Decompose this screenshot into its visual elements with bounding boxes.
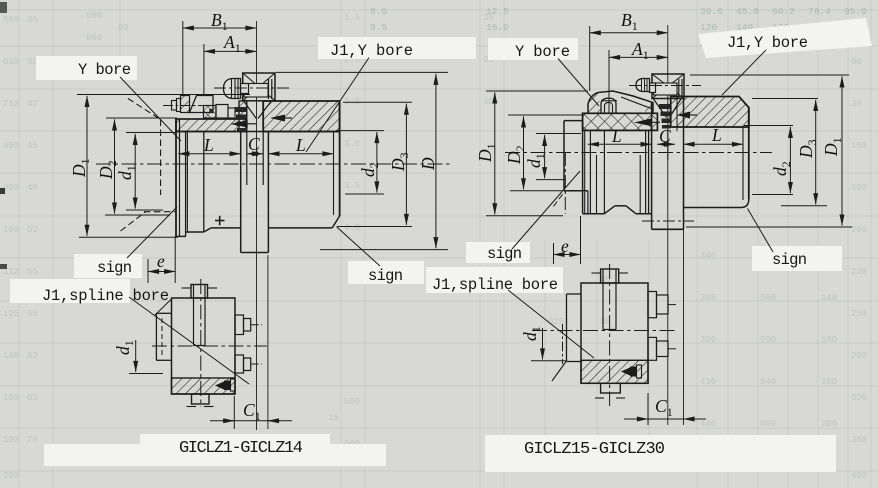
dim B1 right ext — [589, 26, 591, 91]
swan clamp small block — [228, 108, 235, 118]
patch sign right-right — [752, 246, 842, 271]
small view hatch band — [172, 378, 236, 394]
disc slot lines right drawing — [667, 131, 669, 160]
sleeve right bottom chamfer — [332, 216, 339, 228]
svg-text:250: 250 — [851, 309, 867, 319]
svg-text:45: 45 — [27, 141, 38, 151]
hub small end top — [564, 120, 583, 122]
svg-text:180: 180 — [821, 377, 837, 387]
svg-text:800: 800 — [3, 141, 19, 151]
sleeve right outer face — [748, 108, 750, 200]
svg-text:55: 55 — [27, 267, 38, 277]
bolt boss hatch — [645, 103, 653, 113]
bolt block right — [652, 74, 684, 99]
phantom dashed chamfer — [128, 99, 161, 120]
stub break marks — [182, 287, 191, 289]
small view right spline bolt dark — [621, 368, 630, 376]
swan clamp hatched block — [181, 96, 190, 113]
patch J1,Y bore right — [698, 18, 872, 58]
small view right body — [581, 283, 648, 383]
brake disc right face — [267, 132, 269, 253]
svg-text:GICLZ1-GICLZ14: GICLZ1-GICLZ14 — [179, 439, 303, 458]
svg-text:120: 120 — [700, 22, 717, 33]
dim d2 line — [376, 132, 378, 193]
dim D line — [435, 74, 437, 248]
sleeve hatched band right — [671, 97, 749, 128]
small view right horizontal centerline — [532, 330, 678, 332]
bore line under hatch — [175, 131, 340, 133]
leader sign right — [337, 227, 381, 266]
brake disc bottom edge — [241, 252, 269, 254]
C1 right dim — [624, 418, 706, 420]
sleeve hatched section right part — [263, 101, 339, 132]
dim e right verticals — [553, 243, 555, 264]
dim D refs — [276, 71, 448, 73]
svg-text:L: L — [611, 126, 622, 146]
svg-text:GICLZ15-GICLZ30: GICLZ15-GICLZ30 — [524, 440, 665, 459]
svg-text:360: 360 — [700, 293, 716, 303]
patch J1,spline bore right — [426, 267, 563, 293]
dim e line — [148, 271, 175, 273]
svg-text:58: 58 — [27, 309, 38, 319]
swan flange left hatch — [588, 93, 601, 114]
svg-text:200: 200 — [821, 419, 837, 429]
dim d2 refs — [336, 130, 384, 132]
dim d1 line — [134, 134, 136, 209]
svg-text:160: 160 — [851, 141, 867, 151]
swan clamp trapezoid — [190, 96, 214, 113]
small view body — [172, 298, 236, 394]
hub taper step lines — [589, 130, 591, 213]
svg-text:500: 500 — [344, 397, 360, 407]
patch Y bore left — [36, 56, 137, 80]
small view right tab lower — [648, 337, 657, 360]
leader J1,spline bore right — [508, 290, 594, 358]
swan clamp stub bolt — [172, 101, 177, 111]
leader sign right-left — [512, 171, 580, 249]
countersunk V seat — [244, 102, 256, 119]
svg-text:410: 410 — [700, 377, 716, 387]
svg-text:390: 390 — [700, 335, 716, 345]
leader J1,spline bore — [129, 297, 249, 384]
small view top stub — [191, 285, 208, 299]
left hub flange edge — [185, 132, 187, 237]
left hub face chamfer line — [179, 119, 181, 236]
bolt shank right — [650, 83, 656, 93]
svg-text:40: 40 — [483, 97, 494, 107]
svg-text:65: 65 — [27, 393, 38, 403]
svg-text:180: 180 — [3, 435, 19, 445]
left hub step line — [186, 132, 188, 233]
hub small end face — [563, 121, 565, 191]
svg-text:100: 100 — [3, 225, 19, 235]
C1 ref verticals — [233, 396, 235, 429]
dim D2 line — [114, 119, 116, 213]
small view right hatch band — [581, 360, 648, 383]
bolt block bore band right — [654, 83, 678, 95]
phantom dashed break diagonal — [121, 212, 147, 232]
bolt block X diagonals right — [652, 74, 684, 99]
sleeve hatched section left part — [239, 101, 247, 132]
left hub hatched band — [176, 119, 246, 132]
hub bottom edge to disc — [211, 227, 241, 229]
svg-text:95.0: 95.0 — [844, 6, 867, 17]
hub hatched band — [583, 113, 658, 130]
dim e right line — [554, 254, 581, 256]
svg-text:560: 560 — [3, 15, 19, 25]
dim e verticals — [147, 259, 149, 283]
bolt axis vertical thin line — [256, 21, 258, 430]
disc slot right line — [262, 103, 264, 185]
dim A1 extension line — [203, 44, 205, 96]
svg-text:9.5: 9.5 — [370, 22, 387, 33]
dim D2 right line — [523, 116, 525, 189]
svg-text:35: 35 — [27, 15, 38, 25]
svg-text:52: 52 — [27, 225, 38, 235]
patch caption right band — [485, 435, 836, 472]
disc right face right drawing — [683, 97, 685, 230]
dim B1 line — [183, 27, 257, 29]
dim D1 line — [86, 96, 88, 236]
svg-text:160: 160 — [3, 393, 19, 403]
svg-text:L: L — [711, 125, 722, 145]
dash-dot disc lower line — [642, 220, 694, 222]
svg-text:320: 320 — [851, 393, 867, 403]
dim B1 right line — [590, 32, 668, 34]
leader J1,Y bore — [306, 58, 369, 153]
svg-text:3.0: 3.0 — [344, 139, 360, 149]
svg-text:C: C — [248, 134, 260, 154]
dim d2 right line — [789, 127, 791, 193]
swan clamp right block — [216, 105, 228, 119]
svg-text:200: 200 — [851, 225, 867, 235]
svg-text:Y bore: Y bore — [78, 61, 131, 79]
small view right phantom dash-dot — [562, 324, 564, 364]
svg-text:J1,spline bore: J1,spline bore — [432, 276, 558, 294]
small view right top stub — [601, 269, 619, 283]
dim d1 right refs — [536, 133, 581, 135]
sleeve right inner face — [333, 132, 335, 216]
dim D3 right refs — [752, 98, 818, 100]
disc bottom edge right drawing — [652, 228, 684, 230]
svg-text:440: 440 — [700, 419, 716, 429]
svg-text:1.5: 1.5 — [344, 13, 360, 23]
patch Y bore right — [488, 38, 578, 60]
small view spline bolt dark — [215, 382, 224, 390]
svg-text:140: 140 — [821, 293, 837, 303]
C1 right ref verticals — [647, 393, 649, 425]
leader Y bore — [120, 77, 181, 141]
svg-text:J1,spline bore: J1,spline bore — [42, 287, 169, 305]
main horizontal centerline — [96, 163, 452, 165]
swan flange outline — [588, 91, 653, 114]
svg-text:D: D — [418, 157, 438, 171]
bearing cap line — [601, 100, 617, 102]
leader J1,Y bore right — [722, 50, 766, 95]
small view d1 dim — [135, 340, 137, 372]
clamp block bore band — [244, 84, 268, 98]
svg-text:sign: sign — [772, 251, 807, 269]
dim C — [247, 153, 263, 155]
bolt block washers right — [678, 79, 680, 97]
small view right tab lower — [235, 355, 244, 373]
svg-text:590: 590 — [760, 335, 776, 345]
phantom dashed bottom right — [554, 192, 565, 207]
top bolt head slots — [231, 79, 233, 98]
svg-text:3.5: 3.5 — [344, 181, 360, 191]
svg-text:00: 00 — [851, 57, 862, 67]
svg-text:060: 060 — [86, 33, 102, 43]
dim L right — [268, 153, 333, 155]
svg-text:42: 42 — [27, 99, 38, 109]
edge scan marks — [0, 188, 5, 194]
dim d1 refs — [126, 132, 176, 134]
left hub bottom flange edge — [175, 235, 186, 237]
svg-text:sign: sign — [368, 267, 403, 285]
svg-text:60.2: 60.2 — [772, 6, 795, 17]
svg-text:78.4: 78.4 — [808, 6, 831, 17]
svg-text:000: 000 — [86, 11, 102, 21]
grease arrow right lower — [634, 119, 651, 127]
bolt axis right — [629, 85, 701, 87]
top bolt dome head — [224, 79, 241, 99]
dim D3 refs — [343, 101, 412, 103]
bearing inner detail — [605, 102, 613, 113]
svg-text:J1,Y bore: J1,Y bore — [330, 42, 413, 60]
small view right bore slot — [602, 269, 604, 330]
svg-text:640: 640 — [760, 377, 776, 387]
small view right vertical centerline — [609, 264, 611, 406]
C1 dim line — [210, 420, 292, 422]
grease arrow upper — [270, 115, 285, 122]
svg-text:690: 690 — [760, 419, 776, 429]
svg-text:900: 900 — [3, 183, 19, 193]
svg-text:160: 160 — [821, 335, 837, 345]
dim C right — [657, 143, 675, 145]
svg-text:L: L — [203, 135, 214, 155]
disc left face right drawing — [651, 102, 653, 229]
clamp block washer stack — [268, 79, 270, 99]
svg-text:12.5: 12.5 — [486, 6, 509, 17]
svg-text:15: 15 — [328, 413, 339, 423]
small view right bottom stub — [601, 383, 621, 393]
gear mesh teeth dark — [235, 107, 248, 112]
dim D1 refs — [77, 94, 250, 96]
dim D1 left line — [494, 92, 496, 214]
sleeve right outer face — [339, 101, 341, 216]
countersunk V seat right — [654, 99, 667, 118]
svg-text:220: 220 — [851, 267, 867, 277]
svg-text:560: 560 — [760, 293, 776, 303]
svg-text:630: 630 — [3, 57, 19, 67]
bolt dome head right — [636, 79, 650, 92]
balance plus mark — [215, 220, 225, 222]
svg-text:e: e — [561, 236, 569, 256]
leader sign right-right — [748, 209, 774, 253]
leader Y bore right — [558, 59, 599, 107]
svg-text:710: 710 — [3, 99, 19, 109]
main horizontal centerline right — [505, 152, 772, 154]
dim D1 right refs — [690, 74, 849, 76]
small view hidden bore dashed — [161, 318, 163, 355]
bore line under hub hatch — [583, 129, 652, 131]
hub front face — [648, 130, 650, 213]
svg-text:08: 08 — [118, 23, 129, 33]
hub rear face lines — [582, 113, 584, 213]
svg-text:360: 360 — [851, 435, 867, 445]
patch sign left-left — [74, 254, 142, 278]
svg-text:140: 140 — [3, 351, 19, 361]
swan flange inner slant — [621, 97, 653, 109]
svg-text:4.0: 4.0 — [344, 223, 360, 233]
phantom dashed bottom — [144, 211, 175, 213]
top bolt axis — [214, 87, 290, 89]
dim d1 right line — [544, 135, 546, 178]
small view right tab upper — [648, 292, 657, 318]
left hub bottom chamfer — [204, 228, 211, 232]
dim L left — [178, 153, 241, 155]
svg-text:48: 48 — [27, 183, 38, 193]
patch sign right-left — [466, 242, 530, 263]
hub small end face lower edge — [587, 191, 589, 214]
small view bottom stub — [192, 394, 210, 404]
svg-text:30: 30 — [851, 99, 862, 109]
disc slot left line — [246, 103, 248, 185]
stub break marks right — [592, 272, 601, 274]
grease arrow lower — [230, 120, 248, 127]
left hub boss edge — [203, 132, 205, 233]
patch J1,spline bore left — [10, 279, 130, 303]
svg-text:J1,Y bore: J1,Y bore — [727, 34, 808, 52]
dim A1 right line — [609, 56, 668, 58]
phantom dash-dot face right — [564, 153, 566, 214]
small view right break diagonal — [552, 362, 566, 382]
small view bore slot — [193, 285, 195, 346]
swan clamp x-square — [204, 106, 217, 119]
dim A1 right ext — [608, 50, 610, 113]
hub small end bottom — [564, 190, 588, 192]
patch caption left band — [140, 434, 330, 458]
dim D2 refs — [106, 117, 177, 119]
sleeve right bore line — [671, 126, 749, 128]
dim L right-right — [684, 143, 744, 145]
patch sign left-right — [348, 261, 424, 284]
svg-text:Y bore: Y bore — [515, 43, 570, 61]
dim D3 line — [405, 104, 407, 225]
dim D3 right line — [815, 100, 817, 204]
small view right left step — [567, 293, 582, 295]
svg-text:280: 280 — [851, 351, 867, 361]
small view left step — [156, 312, 171, 314]
left hub outer face — [175, 118, 177, 236]
dim A1 line — [204, 50, 257, 52]
bearing dome — [601, 98, 616, 113]
right hub bottom edge — [268, 227, 332, 229]
svg-text:70: 70 — [27, 435, 38, 445]
left hub bottom body edge — [186, 231, 204, 233]
disc face line down to C1 — [683, 229, 685, 425]
sleeve right inner face — [742, 127, 744, 200]
svg-text:025: 025 — [548, 317, 564, 327]
dim D2 right refs — [508, 114, 582, 116]
svg-text:62: 62 — [27, 351, 38, 361]
svg-text:200: 200 — [3, 471, 19, 481]
svg-text:400: 400 — [851, 471, 867, 481]
sleeve right bottom edge — [684, 207, 742, 209]
svg-text:L: L — [295, 135, 306, 155]
gear teeth dark right — [659, 104, 670, 109]
svg-text:125: 125 — [3, 309, 19, 319]
swan bolt axis — [163, 105, 204, 107]
grease arrow right upper — [677, 112, 690, 119]
bolt axis vertical line right — [667, 25, 669, 425]
svg-text:C: C — [659, 126, 671, 146]
svg-text:30.6: 30.6 — [700, 6, 723, 17]
top clamp block — [243, 73, 275, 101]
svg-text:16.0: 16.0 — [486, 22, 509, 33]
svg-text:8.0: 8.0 — [370, 6, 387, 17]
svg-text:sign: sign — [487, 245, 522, 263]
clamp block X diagonals — [243, 73, 275, 101]
phantom dashed face — [160, 120, 162, 196]
svg-text:e: e — [157, 251, 165, 271]
dim D1 left refs — [486, 90, 588, 92]
brake disc left face — [240, 132, 242, 253]
dim B1 extension line — [182, 21, 184, 96]
small view vertical centerline — [200, 279, 202, 407]
svg-text:340: 340 — [700, 251, 716, 261]
small view horizontal centerline — [152, 345, 267, 347]
svg-text:180: 180 — [851, 183, 867, 193]
sleeve right bottom corner — [741, 199, 749, 208]
hub bottom profile — [583, 213, 605, 215]
svg-text:45.8: 45.8 — [736, 6, 759, 17]
small view right tab upper — [235, 315, 244, 335]
patch J1,Y bore left — [318, 37, 476, 59]
top bolt shank — [241, 84, 249, 94]
dim D1 right line — [841, 76, 843, 225]
dim d2 right refs — [744, 125, 793, 127]
dim L right-left — [588, 143, 652, 145]
leader sign left — [127, 207, 177, 258]
small view right d1 dim — [542, 328, 544, 360]
svg-text:sign: sign — [97, 259, 132, 277]
